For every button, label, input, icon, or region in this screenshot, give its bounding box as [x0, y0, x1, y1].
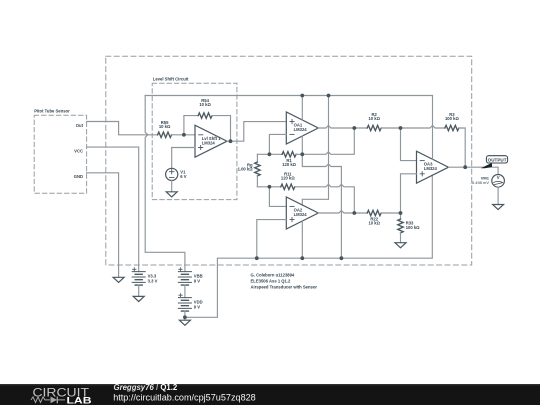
Pitot Tube Sensor subcircuit box: [34, 115, 86, 193]
resistor R2: [367, 125, 381, 130]
wire: R2 to OA3 inverting node: [381, 127, 400, 129]
wire: R54 down to level-shift output: [212, 116, 230, 142]
resistor R33: [398, 213, 403, 243]
svg-text:10 kΩ: 10 kΩ: [159, 124, 171, 129]
wire: Rg bottom to R11: [257, 186, 280, 188]
node: R3 feedback to output: [463, 165, 467, 169]
wire: supply rail drop to VBB (hops over Out wire): [145, 96, 185, 272]
node: VDD negative to ground junction: [183, 315, 187, 319]
wire: sensor GND down to ground: [87, 173, 119, 277]
svg-text:http://circuitlab.com/cpj57u57: http://circuitlab.com/cpj57u57zq828: [113, 393, 256, 403]
svg-text:100 kΩ: 100 kΩ: [406, 225, 420, 230]
wire: rail branch down to OA2 V+ pin: [302, 96, 328, 206]
wire: negative rail from VDD ground to op-amp V- pins: [185, 175, 432, 317]
wire: level-shift output to OA1 non-inverting input: [227, 122, 286, 142]
svg-text:-5.498 mV: -5.498 mV: [471, 180, 490, 185]
ground (below VDD): [179, 320, 190, 325]
ground (below V3.3): [133, 296, 144, 301]
svg-text:LM324: LM324: [202, 140, 216, 145]
svg-text:G. Coleborn u1123894: G. Coleborn u1123894: [251, 273, 295, 278]
wire: R11 right to OA2 output (hops two verticals): [295, 184, 355, 213]
node: R11 feedback to OA2 output row: [352, 211, 356, 215]
svg-text:LM324: LM324: [294, 127, 308, 132]
wire: OA3 output to VM1: [449, 167, 499, 174]
wire: OA2 inverting input riser: [269, 187, 286, 207]
outer dashed enclosure box: [106, 56, 472, 265]
svg-text:Pitot Tube Sensor: Pitot Tube Sensor: [34, 109, 70, 114]
ground (below V1): [166, 192, 177, 197]
wire: feedback riser to R54: [184, 116, 198, 135]
resistor R3: [445, 125, 459, 130]
Level Shift Circuit dashed box: [152, 83, 237, 199]
op-amp U4 Lvl Shft 1 LM324: [195, 125, 227, 157]
wire: R22 to R33 node: [381, 212, 400, 214]
wire: OA3 V+ pin up to rail end: [432, 96, 434, 160]
node: R1 to OA1 inverting input: [268, 152, 272, 156]
node: R11 to OA2 inverting input: [268, 185, 272, 189]
svg-text:Airspeed Transducer with Senso: Airspeed Transducer with Sensor: [251, 284, 318, 289]
wire: OA1 inverting input riser: [269, 134, 286, 154]
svg-text:GND: GND: [74, 174, 83, 179]
ground (sensor GND): [113, 277, 124, 282]
resistor R11: [281, 184, 295, 189]
resistor R1: [282, 152, 296, 157]
footer CircuitLab logo: [31, 385, 92, 405]
svg-text:9 V: 9 V: [194, 279, 200, 284]
voltmeter VM1: [492, 175, 505, 188]
node: level-shift inverting input junction: [182, 133, 186, 137]
ground (below R33): [395, 243, 406, 248]
battery V3.3: [132, 268, 145, 286]
svg-text:V: V: [497, 175, 500, 180]
svg-text:1.00 kΩ: 1.00 kΩ: [238, 167, 254, 172]
wire: OA3 inverting input riser: [401, 128, 417, 161]
op-amp OA2 LM324: [286, 197, 318, 229]
svg-text:Level Shift Circuit: Level Shift Circuit: [153, 77, 189, 82]
node: OA2 non-inverting to rail: [255, 256, 259, 260]
op-amp OA3 LM324: [417, 151, 449, 183]
node: rail branch to OA2 V+: [327, 94, 331, 98]
svg-text:9 V: 9 V: [194, 305, 200, 310]
svg-text:120 kΩ: 120 kΩ: [281, 175, 295, 180]
wire: VM1 to ground: [497, 187, 499, 204]
wire: V1 to level-shift non-inverting input: [172, 147, 195, 149]
wire: VBB minus to VDD plus: [184, 285, 186, 298]
wire: OA1 output row to R2 (hops supply branch): [318, 126, 367, 129]
battery VDD: [178, 294, 191, 312]
wire: R55 to op-amp inverting input: [172, 134, 195, 136]
wire: OA2 V- pin to negative rail: [301, 221, 303, 258]
svg-text:Greggsy76 / Q1.2: Greggsy76 / Q1.2: [114, 383, 178, 392]
ground (below VM1): [493, 205, 504, 210]
wire: OA2 non-inverting input to negative rail: [257, 220, 287, 259]
node: OA2 V- to rail: [300, 256, 304, 260]
resistor Rg: [255, 154, 260, 187]
wire: R3 feedback down to OA3 output: [459, 128, 465, 167]
wire: OA1 V- pin down and over to negative rail: [302, 136, 341, 258]
node: OA1 V- path to negative rail: [340, 256, 344, 260]
svg-text:LAB: LAB: [67, 395, 92, 405]
wire: positive supply rail: [145, 95, 432, 97]
OUTPUT flag: [481, 156, 508, 169]
svg-text:ELE3506 Ass 1 Q1.2: ELE3506 Ass 1 Q1.2: [251, 279, 292, 284]
svg-text:LM324: LM324: [294, 212, 308, 217]
wire: V3.3 minus to ground: [138, 285, 140, 296]
wire: OA2 output row (hops V- path): [318, 211, 367, 214]
svg-text:10 kΩ: 10 kΩ: [199, 102, 211, 107]
svg-text:OUTPUT: OUTPUT: [488, 158, 507, 163]
wire: R2 node to R3 (hops OA3 V+ stub): [401, 126, 445, 129]
op-amp OA1 LM324: [286, 112, 318, 144]
node: R1 feedback to output row: [352, 126, 356, 130]
node: OA1 V- path crosses R1 node: [300, 152, 304, 156]
footer bar: [0, 383, 540, 405]
node: rail to OA1 V+: [300, 94, 304, 98]
resistor R54: [198, 113, 212, 118]
wire: sensor VCC down to V3.3: [87, 147, 139, 271]
resistor R22: [367, 210, 381, 215]
voltage source V1: [166, 148, 178, 192]
svg-text:3.3 V: 3.3 V: [148, 279, 158, 284]
wire: sensor Out to R55: [87, 122, 158, 135]
svg-text:6 V: 6 V: [180, 174, 186, 179]
wire: OA3 non-inverting riser to R22 node: [401, 174, 417, 213]
resistor R55: [158, 132, 172, 137]
node: level-shift output junction: [229, 139, 233, 143]
svg-text:Out: Out: [76, 123, 84, 128]
svg-text:VCC: VCC: [74, 148, 83, 153]
svg-text:120 kΩ: 120 kΩ: [282, 162, 296, 167]
wire: Rg top to R1: [257, 153, 282, 155]
svg-text:10 kΩ: 10 kΩ: [368, 116, 380, 121]
schematic text labels: [34, 77, 507, 310]
battery VBB: [178, 268, 191, 286]
wire: VDD minus to ground: [184, 311, 186, 320]
node: R2/R3/OA3 inverting junction: [399, 126, 403, 130]
svg-text:LM324: LM324: [424, 166, 438, 171]
svg-text:10 kΩ: 10 kΩ: [368, 221, 380, 226]
wire: R1 right to OA1 output (hops supply branch): [296, 128, 354, 154]
svg-text:100 kΩ: 100 kΩ: [445, 116, 459, 121]
node: R22/R33/OA3 non-inverting junction: [399, 211, 403, 215]
wire: OA1 V+ pin to rail: [301, 96, 303, 121]
